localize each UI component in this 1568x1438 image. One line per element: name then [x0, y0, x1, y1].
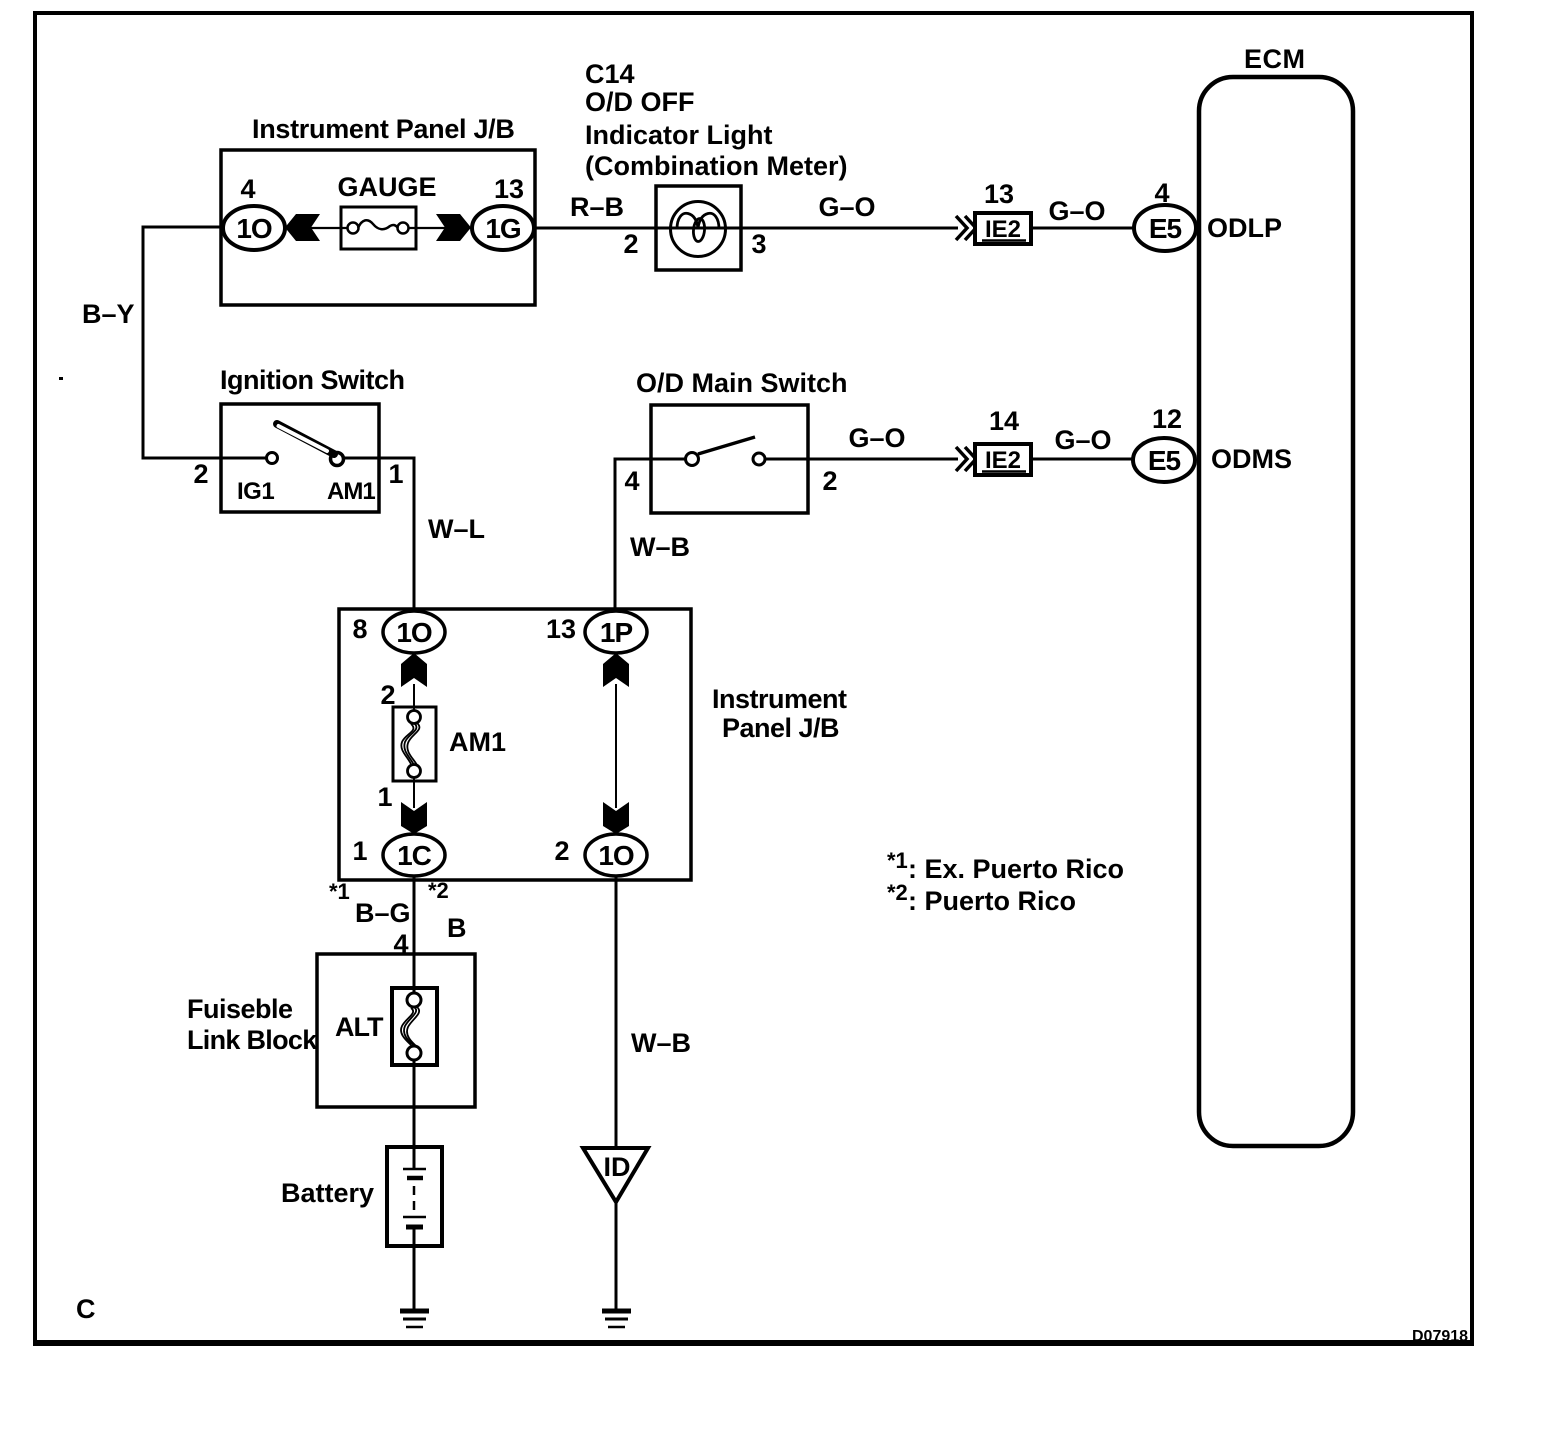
- svg-text:4: 4: [240, 174, 255, 204]
- svg-text:W–L: W–L: [428, 514, 485, 544]
- svg-text:B–Y: B–Y: [82, 299, 135, 329]
- arrow down (left): [401, 802, 427, 834]
- svg-text:ODLP: ODLP: [1207, 213, 1282, 243]
- svg-text:1P: 1P: [600, 617, 633, 648]
- svg-text:2: 2: [554, 836, 569, 866]
- svg-text:1C: 1C: [397, 840, 432, 871]
- wire O/D pin2 to IE2: [765, 458, 958, 461]
- svg-text:*1: *1: [329, 879, 350, 904]
- svg-text:8: 8: [352, 614, 367, 644]
- svg-text:14: 14: [989, 406, 1019, 436]
- O/D Main Switch: [624, 368, 847, 513]
- wire IE2 to E5 ODLP: [1031, 227, 1134, 230]
- svg-text:B: B: [447, 913, 467, 943]
- svg-text:C14: C14: [585, 59, 635, 89]
- connector 1P pin 13: [546, 611, 647, 653]
- fuse GAUGE: [285, 172, 471, 249]
- connector E5 pin 4 ODLP: [1134, 178, 1282, 251]
- connector 1O pin 8: [352, 611, 445, 653]
- wire ID to ground: [615, 1202, 618, 1311]
- Instrument Panel J/B (top) box: [221, 114, 535, 305]
- Instrument Panel J/B (middle) box: [339, 609, 847, 880]
- svg-text:B–G: B–G: [355, 898, 411, 928]
- svg-text:13: 13: [984, 179, 1014, 209]
- fuse ALT: [335, 988, 437, 1065]
- svg-text:Indicator Light: Indicator Light: [585, 120, 772, 150]
- wire 1G to lamp to IE2: [535, 227, 958, 230]
- svg-text:IE2: IE2: [985, 216, 1021, 243]
- svg-text:E5: E5: [1149, 213, 1182, 244]
- svg-text:1O: 1O: [396, 617, 432, 648]
- svg-text:: Ex. Puerto Rico: : Ex. Puerto Rico: [908, 854, 1124, 884]
- arrow down (right): [603, 802, 629, 834]
- svg-text:12: 12: [1152, 404, 1182, 434]
- arrow right (into 1G): [436, 214, 471, 241]
- svg-text:2: 2: [822, 466, 837, 496]
- Ignition Switch: [193, 365, 404, 512]
- svg-text:Instrument Panel J/B: Instrument Panel J/B: [252, 114, 515, 144]
- svg-text:G–O: G–O: [1054, 425, 1111, 455]
- svg-text:Fuiseble: Fuiseble: [187, 994, 293, 1024]
- lamp C14 O/D OFF indicator (combination meter): [656, 186, 741, 270]
- connector 1G pin 13 (top J/B): [472, 174, 534, 250]
- svg-text:G–O: G–O: [818, 192, 875, 222]
- svg-text:R–B: R–B: [570, 192, 624, 222]
- svg-text:AM1: AM1: [327, 478, 375, 505]
- svg-text:IG1: IG1: [237, 478, 274, 505]
- label C14 O/D OFF Indicator Light: [585, 59, 848, 181]
- svg-text:*1: *1: [887, 848, 908, 873]
- wire stub right of fuse: [406, 227, 471, 229]
- connector 1O pin 2 (bottom): [554, 834, 647, 876]
- connector 1C pin 1: [352, 834, 445, 876]
- arrow left (into 1O): [285, 214, 320, 241]
- svg-text:IE2: IE2: [985, 447, 1021, 474]
- wire ignition pin1 down: [343, 458, 414, 612]
- svg-text:W–B: W–B: [630, 532, 690, 562]
- svg-text:3: 3: [751, 229, 766, 259]
- wire down left inside J/B: [413, 684, 415, 710]
- svg-text:*2: *2: [887, 880, 908, 905]
- svg-text:(Combination Meter): (Combination Meter): [585, 151, 848, 181]
- svg-text:1: 1: [377, 782, 392, 812]
- node *1 B-G / *2 B labels: [329, 878, 467, 959]
- svg-text:13: 13: [546, 614, 576, 644]
- wire 1C down to fusible link block: [413, 876, 416, 992]
- wire 1O (bottom) down to ID: [615, 876, 618, 1148]
- arrow up (left): [401, 653, 427, 687]
- wire ALT to battery: [413, 1060, 416, 1169]
- Fuiseble Link Block box: [187, 954, 475, 1107]
- svg-text:*2: *2: [428, 878, 449, 903]
- wire IE2 to E5 ODMS: [1031, 458, 1133, 461]
- legend Puerto Rico notes: [887, 848, 1124, 916]
- wire stub left of fuse: [285, 227, 350, 229]
- svg-text:ID: ID: [604, 1152, 631, 1182]
- connector E5 pin 12 ODMS: [1133, 404, 1292, 482]
- ground (ID): [602, 1311, 631, 1327]
- connector oval 1G: [472, 206, 534, 250]
- svg-text:Instrument: Instrument: [712, 684, 847, 714]
- svg-text:Panel J/B: Panel J/B: [722, 713, 839, 743]
- wire O/D pin4 down: [615, 459, 685, 612]
- svg-text:ODMS: ODMS: [1211, 444, 1292, 474]
- wire from AM1 to down arrow: [413, 778, 415, 808]
- ECM U1: [1199, 44, 1353, 1146]
- wire B-Y from connector 1O to Ignition Switch: [143, 227, 266, 458]
- svg-text:ALT: ALT: [335, 1012, 384, 1042]
- svg-text:G–O: G–O: [848, 423, 905, 453]
- arrow up (right): [603, 653, 629, 687]
- junction connector IE2 pin 14: [956, 406, 1031, 475]
- ground (battery): [400, 1311, 429, 1327]
- svg-text:1O: 1O: [598, 840, 634, 871]
- wire battery to ground: [413, 1229, 416, 1311]
- svg-text:1: 1: [388, 459, 403, 489]
- svg-text:1O: 1O: [236, 213, 272, 244]
- svg-text:GAUGE: GAUGE: [337, 172, 436, 202]
- svg-text:O/D Main Switch: O/D Main Switch: [636, 368, 848, 398]
- svg-text:Battery: Battery: [281, 1178, 374, 1208]
- svg-text:1G: 1G: [485, 213, 521, 244]
- svg-text:: Puerto Rico: : Puerto Rico: [908, 886, 1076, 916]
- scan dot artifact: [59, 377, 63, 380]
- battery: [281, 1147, 442, 1246]
- svg-text:W–B: W–B: [631, 1028, 691, 1058]
- svg-text:13: 13: [494, 174, 524, 204]
- wire between arrows (right): [615, 684, 617, 808]
- svg-text:O/D OFF: O/D OFF: [585, 87, 695, 117]
- svg-text:E5: E5: [1148, 445, 1181, 476]
- svg-text:Ignition Switch: Ignition Switch: [220, 365, 404, 395]
- svg-text:2: 2: [193, 459, 208, 489]
- connector oval 1O: [223, 206, 285, 250]
- connector ID triangle: [583, 1148, 648, 1202]
- svg-text:C: C: [76, 1294, 96, 1324]
- svg-text:AM1: AM1: [449, 727, 506, 757]
- svg-text:Link Block: Link Block: [187, 1025, 318, 1055]
- svg-text:D07918: D07918: [1412, 1328, 1468, 1345]
- svg-text:4: 4: [624, 466, 639, 496]
- svg-text:1: 1: [352, 836, 367, 866]
- svg-text:ECM: ECM: [1244, 44, 1306, 74]
- junction connector IE2 pin 13: [956, 179, 1031, 244]
- svg-text:G–O: G–O: [1048, 196, 1105, 226]
- svg-text:2: 2: [623, 229, 638, 259]
- fuse AM1: [377, 680, 506, 812]
- connector 1O pin 4 (top J/B): [223, 174, 285, 250]
